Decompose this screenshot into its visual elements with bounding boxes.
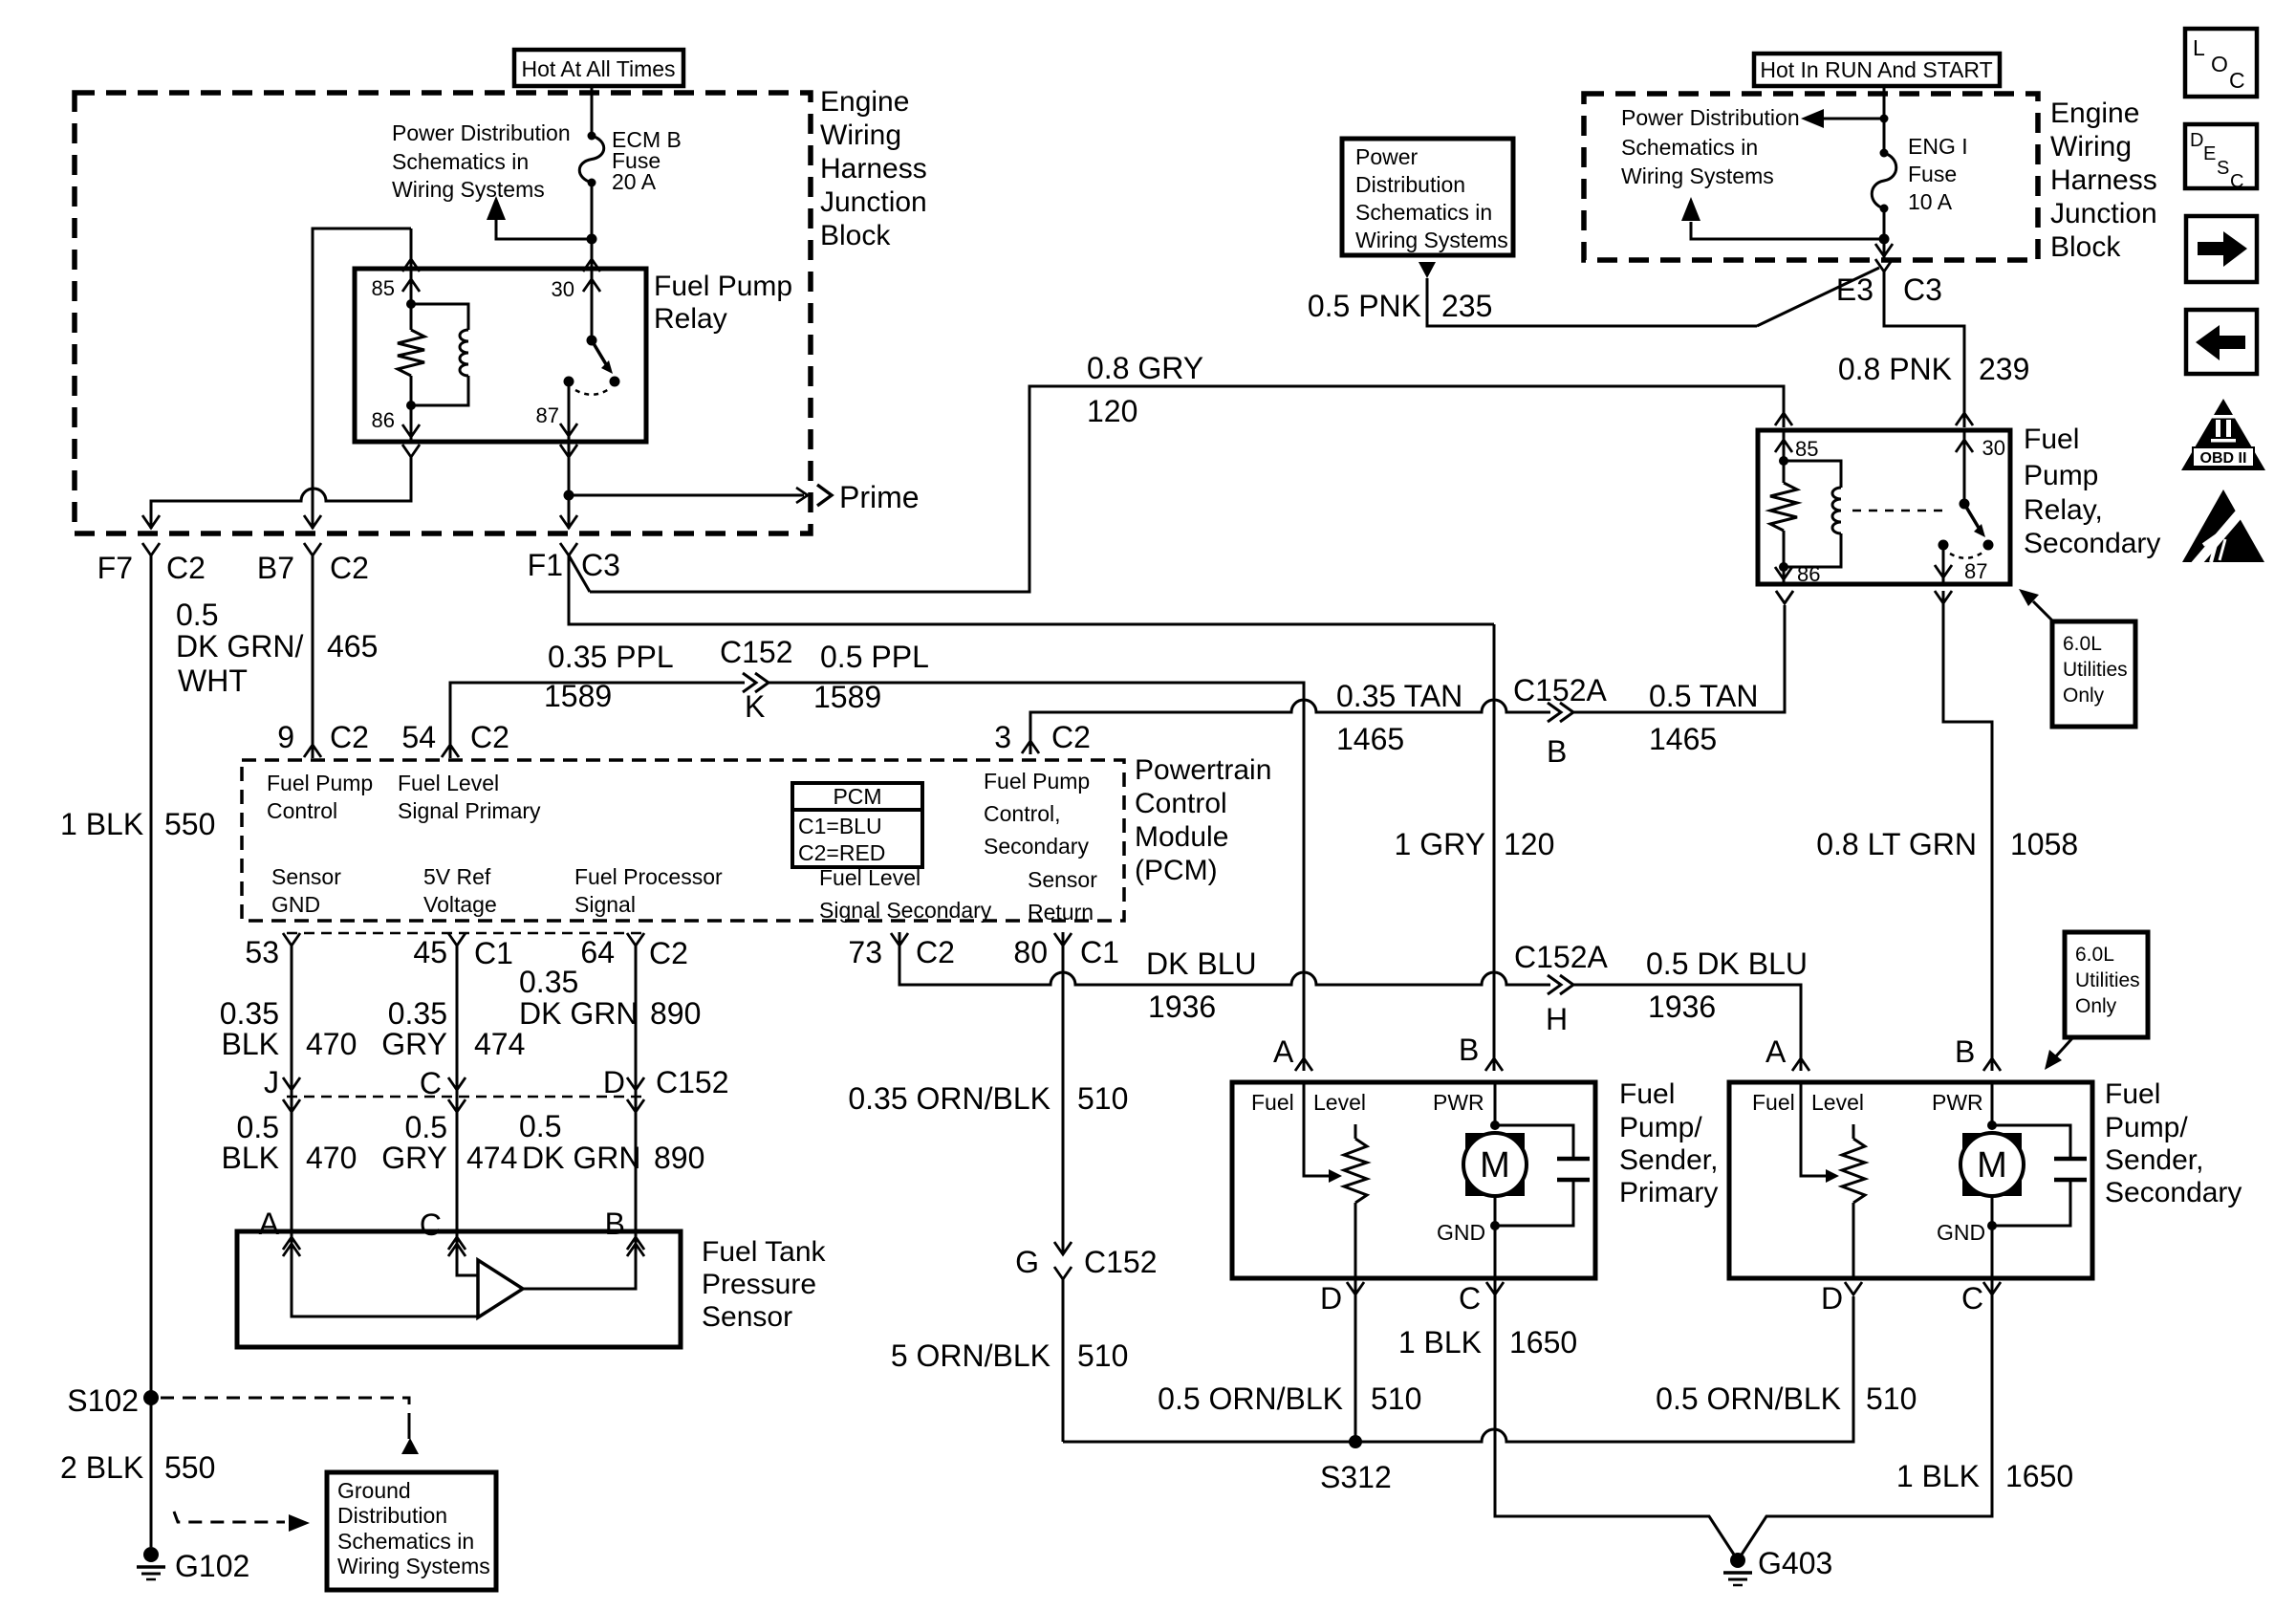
svg-text:510: 510 bbox=[1866, 1382, 1917, 1416]
switch K2 dashed throw arc bbox=[1950, 553, 1982, 558]
wire PCM pin 53 to sensor A bbox=[291, 945, 293, 1231]
wire 0.35 ORN/BLK pin 80 down bbox=[1062, 932, 1065, 1254]
svg-text:1589: 1589 bbox=[813, 680, 881, 714]
svg-text:Module: Module bbox=[1135, 821, 1228, 853]
svg-text:C2: C2 bbox=[916, 935, 955, 969]
wire K2 pin 85 stem bbox=[1783, 432, 1786, 461]
svg-text:Fuse: Fuse bbox=[1908, 162, 1957, 186]
svg-text:BLK: BLK bbox=[222, 1027, 279, 1061]
svg-text:Only: Only bbox=[2063, 685, 2105, 707]
svg-text:G102: G102 bbox=[175, 1549, 249, 1583]
svg-text:C152A: C152A bbox=[1514, 940, 1609, 974]
switch K1 arm bbox=[592, 340, 606, 364]
wire 0.35 TAN bbox=[1030, 700, 1550, 741]
svg-text:Hot In RUN And START: Hot In RUN And START bbox=[1760, 57, 1992, 82]
svg-text:Primary: Primary bbox=[1619, 1177, 1718, 1208]
svg-text:PWR: PWR bbox=[1433, 1090, 1484, 1115]
svg-text:3: 3 bbox=[994, 720, 1011, 754]
resistor K2 coil shunt bbox=[1770, 483, 1797, 531]
svg-text:6.0L: 6.0L bbox=[2063, 633, 2102, 655]
icon arrow right bbox=[2198, 231, 2247, 267]
arrow up to power distribution schematics bbox=[487, 196, 506, 220]
svg-text:Junction: Junction bbox=[2050, 198, 2157, 229]
junction block (right, engine wiring harness) dashed box bbox=[1584, 94, 2038, 260]
arrow from upper 6.0L box to K2 bbox=[2033, 601, 2054, 622]
svg-text:0.35: 0.35 bbox=[519, 965, 578, 999]
svg-text:1465: 1465 bbox=[1336, 722, 1404, 756]
svg-text:Wiring Systems: Wiring Systems bbox=[392, 177, 545, 202]
svg-text:Prime: Prime bbox=[839, 480, 920, 514]
svg-text:C3: C3 bbox=[1903, 272, 1942, 307]
svg-text:87: 87 bbox=[536, 403, 559, 427]
wire 0.8 GRY bbox=[590, 386, 1784, 592]
wire K1 switch common (pin 30) bbox=[591, 271, 594, 340]
svg-text:M: M bbox=[1480, 1145, 1510, 1186]
dashed reference to ground distribution (lower) bbox=[174, 1512, 285, 1522]
svg-text:Fuel: Fuel bbox=[1752, 1090, 1795, 1115]
svg-text:Fuel: Fuel bbox=[2024, 424, 2079, 455]
svg-text:Secondary: Secondary bbox=[2024, 528, 2160, 559]
svg-text:Signal: Signal bbox=[574, 892, 636, 917]
svg-text:D: D bbox=[1320, 1281, 1342, 1316]
wire PCM pin 45 to sensor C bbox=[456, 945, 459, 1231]
note box 6.0L Utilities Only (upper) bbox=[2052, 621, 2135, 727]
motor fuel pump secondary bbox=[1991, 1082, 1994, 1125]
fuel pump/sender secondary box bbox=[1729, 1082, 2092, 1278]
svg-text:Control: Control bbox=[1135, 788, 1227, 819]
svg-text:C152: C152 bbox=[656, 1065, 729, 1099]
wire: prime branch bbox=[569, 494, 804, 497]
connector PCM pin 54 bbox=[442, 745, 459, 757]
svg-text:Power Distribution: Power Distribution bbox=[392, 120, 571, 145]
svg-text:465: 465 bbox=[327, 629, 378, 664]
sensor internal signal output arm bbox=[523, 1231, 636, 1289]
svg-text:Schematics in: Schematics in bbox=[392, 149, 529, 174]
svg-text:1 BLK: 1 BLK bbox=[60, 807, 143, 841]
svg-text:A: A bbox=[259, 1207, 280, 1241]
svg-text:0.35: 0.35 bbox=[220, 996, 279, 1031]
svg-text:Sensor: Sensor bbox=[702, 1301, 792, 1333]
note box Power Distribution Schematics (middle) bbox=[1342, 139, 1513, 255]
svg-text:C152: C152 bbox=[1084, 1245, 1158, 1279]
svg-text:A: A bbox=[1273, 1034, 1294, 1069]
splice S102 bbox=[143, 1390, 159, 1405]
svg-text:80: 80 bbox=[1013, 935, 1048, 969]
svg-text:1465: 1465 bbox=[1649, 722, 1717, 756]
motor fuel pump primary bbox=[1494, 1082, 1497, 1125]
svg-text:GRY: GRY bbox=[381, 1141, 447, 1175]
svg-text:53: 53 bbox=[245, 935, 279, 969]
svg-text:PWR: PWR bbox=[1932, 1090, 1983, 1115]
svg-text:C2=RED: C2=RED bbox=[798, 840, 885, 865]
svg-text:Control: Control bbox=[267, 798, 337, 823]
wire: K1 87 down to connector F1 bbox=[568, 442, 571, 529]
svg-text:470: 470 bbox=[306, 1141, 357, 1175]
relay K2 Fuel Pump Relay Secondary box bbox=[1758, 430, 2010, 584]
svg-text:20 A: 20 A bbox=[612, 169, 657, 194]
fuel tank pressure sensor box bbox=[237, 1231, 681, 1347]
svg-text:K: K bbox=[745, 689, 765, 724]
svg-text:9: 9 bbox=[277, 720, 294, 754]
svg-text:E3: E3 bbox=[1836, 272, 1874, 307]
svg-text:C2: C2 bbox=[166, 551, 206, 585]
arrow up (right junction block) bbox=[1681, 197, 1700, 221]
wire: K1 85 to connector B7 bbox=[410, 228, 413, 271]
svg-text:ENG I: ENG I bbox=[1908, 134, 1968, 159]
svg-text:B: B bbox=[1459, 1033, 1479, 1067]
svg-text:D: D bbox=[603, 1065, 625, 1099]
svg-text:H: H bbox=[1546, 1002, 1568, 1036]
svg-text:0.5: 0.5 bbox=[237, 1110, 279, 1144]
wire K1 pin 87 stem bbox=[568, 381, 571, 442]
svg-text:Engine: Engine bbox=[2050, 98, 2139, 129]
wire K2 switch common (pin 30) bbox=[1963, 432, 1966, 504]
svg-text:GRY: GRY bbox=[381, 1027, 447, 1061]
svg-text:73: 73 bbox=[848, 935, 882, 969]
svg-text:Block: Block bbox=[2050, 231, 2121, 263]
svg-text:Sensor: Sensor bbox=[271, 864, 341, 889]
svg-text:Fuel Pump: Fuel Pump bbox=[984, 769, 1090, 794]
svg-text:GND: GND bbox=[271, 892, 320, 917]
wire: F7 to S102 bbox=[150, 555, 153, 1398]
svg-text:0.5: 0.5 bbox=[519, 1109, 561, 1143]
svg-text:45: 45 bbox=[413, 935, 447, 969]
svg-text:0.5 TAN: 0.5 TAN bbox=[1649, 679, 1758, 713]
svg-text:G: G bbox=[1015, 1245, 1039, 1279]
svg-text:Ground: Ground bbox=[337, 1478, 411, 1503]
svg-text:Wiring Systems: Wiring Systems bbox=[1621, 163, 1774, 188]
wire: ignition feed bbox=[1883, 86, 1886, 153]
svg-text:0.8 PNK: 0.8 PNK bbox=[1838, 352, 1952, 386]
wire PCM pin 64 to sensor B bbox=[635, 945, 638, 1231]
svg-text:Pump: Pump bbox=[2024, 460, 2098, 491]
dashed reference from S102 bbox=[161, 1398, 409, 1430]
svg-text:Level: Level bbox=[1811, 1090, 1864, 1115]
wire: branch to up arrow (right) bbox=[1691, 222, 1884, 239]
wire: S102 to G102 bbox=[150, 1398, 153, 1547]
wire: K1 86 to connector F7 bbox=[151, 457, 411, 529]
svg-text:Relay,: Relay, bbox=[2024, 494, 2103, 526]
svg-text:Level: Level bbox=[1313, 1090, 1366, 1115]
capacitor fuel pump primary bbox=[1495, 1125, 1573, 1159]
svg-text:Utilities: Utilities bbox=[2075, 969, 2140, 991]
svg-text:C: C bbox=[420, 1066, 442, 1100]
label box: Hot In RUN And START bbox=[1754, 54, 2000, 86]
note box 6.0L Utilities Only (lower) bbox=[2065, 932, 2148, 1037]
C152 inline connector dashed bottom bbox=[287, 1096, 644, 1099]
svg-text:Powertrain: Powertrain bbox=[1135, 754, 1271, 786]
svg-text:0.35 ORN/BLK: 0.35 ORN/BLK bbox=[848, 1081, 1051, 1116]
svg-text:54: 54 bbox=[401, 720, 436, 754]
svg-text:550: 550 bbox=[164, 1450, 215, 1485]
connector PCM pin 80 bbox=[1054, 933, 1072, 946]
svg-text:474: 474 bbox=[474, 1027, 525, 1061]
svg-text:1650: 1650 bbox=[2005, 1459, 2073, 1493]
svg-text:Wiring Systems: Wiring Systems bbox=[1355, 228, 1508, 252]
icon box LOC bbox=[2185, 29, 2257, 97]
svg-text:0.5 ORN/BLK: 0.5 ORN/BLK bbox=[1158, 1382, 1343, 1416]
svg-text:C2: C2 bbox=[330, 720, 369, 754]
svg-text:0.5: 0.5 bbox=[405, 1110, 447, 1144]
wire: battery feed into block bbox=[591, 86, 594, 136]
svg-text:Fuel Pump: Fuel Pump bbox=[267, 771, 373, 795]
svg-text:470: 470 bbox=[306, 1027, 357, 1061]
svg-text:Wiring: Wiring bbox=[2050, 131, 2132, 163]
svg-text:C: C bbox=[420, 1207, 442, 1242]
svg-text:WHT: WHT bbox=[178, 664, 248, 698]
wire 0.35 PPL bbox=[450, 683, 745, 745]
svg-text:C2: C2 bbox=[1051, 720, 1091, 754]
icon box arrow left bbox=[2186, 310, 2257, 374]
svg-text:O: O bbox=[2211, 52, 2228, 76]
svg-text:86: 86 bbox=[372, 408, 395, 432]
wire: branch to power distribution note bbox=[496, 220, 592, 239]
svg-text:Pump/: Pump/ bbox=[1619, 1112, 1702, 1143]
arrow down from middle note box bbox=[1419, 262, 1436, 278]
svg-text:Fuel Processor: Fuel Processor bbox=[574, 864, 723, 889]
arrowhead prime at harness edge bbox=[796, 488, 808, 503]
svg-text:Block: Block bbox=[820, 220, 891, 251]
switch K2 arm bbox=[1964, 504, 1979, 528]
svg-text:D: D bbox=[1821, 1281, 1843, 1316]
svg-text:30: 30 bbox=[552, 277, 574, 301]
note box Ground Distribution Schematics in Wiring Systems bbox=[327, 1472, 496, 1590]
svg-text:Schematics in: Schematics in bbox=[337, 1529, 474, 1554]
op-amp fuel tank pressure sensor bbox=[478, 1260, 523, 1317]
wire 1 BLK secondary C to G403 bbox=[1740, 1278, 1992, 1557]
svg-text:5 ORN/BLK: 5 ORN/BLK bbox=[891, 1338, 1051, 1373]
svg-text:F7: F7 bbox=[97, 551, 133, 585]
wire 0.5 PNK bbox=[1427, 278, 1757, 326]
svg-text:Return: Return bbox=[1028, 900, 1094, 925]
label box: Hot At All Times bbox=[514, 50, 683, 86]
svg-text:0.8 GRY: 0.8 GRY bbox=[1087, 351, 1203, 385]
wire 0.5 ORN/BLK primary D down bbox=[1354, 1278, 1357, 1442]
connector chevron above K1 pin 30 bbox=[583, 259, 600, 272]
svg-text:Utilities: Utilities bbox=[2063, 659, 2128, 681]
svg-text:A: A bbox=[1765, 1034, 1787, 1069]
svg-text:Sensor: Sensor bbox=[1028, 867, 1097, 892]
icon OBD II label band bbox=[2193, 447, 2254, 467]
connector G / C152 inline bbox=[1054, 1242, 1072, 1254]
svg-text:550: 550 bbox=[164, 807, 215, 841]
svg-text:0.5 PPL: 0.5 PPL bbox=[820, 640, 929, 674]
fuse ENG I bbox=[1880, 149, 1889, 158]
svg-text:0.8 LT GRN: 0.8 LT GRN bbox=[1816, 827, 1977, 861]
svg-text:Fuel: Fuel bbox=[1619, 1078, 1675, 1110]
icon box DESC bbox=[2185, 124, 2257, 188]
potentiometer fuel level sender secondary bbox=[1852, 1124, 1855, 1139]
svg-text:Power: Power bbox=[1355, 144, 1419, 169]
svg-text:B7: B7 bbox=[257, 551, 294, 585]
pin chevron C secondary bbox=[1983, 1282, 2001, 1295]
svg-text:Secondary: Secondary bbox=[2105, 1177, 2242, 1208]
svg-text:1936: 1936 bbox=[1648, 990, 1716, 1024]
sensor internal 5v arm bbox=[457, 1231, 478, 1275]
svg-text:B: B bbox=[605, 1207, 625, 1241]
connector F7 / C2 bbox=[142, 543, 160, 555]
sensor internal ground arm bbox=[292, 1231, 478, 1316]
svg-text:C2: C2 bbox=[330, 551, 369, 585]
svg-text:0.5: 0.5 bbox=[176, 598, 218, 632]
splice S312 bbox=[1349, 1435, 1362, 1448]
wire K1 pin 85 stem bbox=[410, 271, 413, 304]
svg-text:Pressure: Pressure bbox=[702, 1269, 816, 1300]
svg-text:890: 890 bbox=[654, 1141, 704, 1175]
svg-text:C1=BLU: C1=BLU bbox=[798, 814, 882, 838]
svg-text:G403: G403 bbox=[1758, 1546, 1832, 1580]
svg-text:474: 474 bbox=[466, 1141, 517, 1175]
svg-text:S312: S312 bbox=[1320, 1460, 1392, 1494]
junction block (engine wiring harness) dashed box bbox=[75, 93, 811, 533]
icon ESD hand cutout bbox=[2193, 501, 2250, 568]
connector C152 pin K chevrons bbox=[743, 673, 756, 692]
chevron prime connector bbox=[817, 485, 832, 506]
splice bus S312 wire bbox=[1063, 1296, 1853, 1442]
svg-text:Voltage: Voltage bbox=[423, 892, 497, 917]
wiper arm fuel level sender secondary bbox=[1801, 1082, 1828, 1176]
svg-text:0.5 ORN/BLK: 0.5 ORN/BLK bbox=[1656, 1382, 1841, 1416]
svg-text:E: E bbox=[2203, 143, 2216, 164]
svg-text:Control,: Control, bbox=[984, 801, 1061, 826]
svg-text:M: M bbox=[1977, 1145, 2007, 1186]
svg-text:Sender,: Sender, bbox=[2105, 1144, 2203, 1176]
wire PCM C3 lower leg bbox=[569, 555, 1494, 624]
svg-text:64: 64 bbox=[580, 935, 615, 969]
svg-text:Hot At All Times: Hot At All Times bbox=[521, 56, 675, 81]
wire K1 pin 86 stem bbox=[410, 405, 413, 442]
connector C152A pin B chevrons bbox=[1548, 703, 1561, 722]
wire 1 BLK primary C to G403 bbox=[1495, 1278, 1736, 1557]
svg-text:Relay: Relay bbox=[654, 303, 727, 335]
connector PCM pin 73 bbox=[891, 933, 908, 946]
svg-text:S: S bbox=[2217, 158, 2229, 179]
svg-text:Engine: Engine bbox=[820, 86, 909, 118]
svg-text:Signal Secondary: Signal Secondary bbox=[819, 898, 992, 923]
svg-text:C: C bbox=[2230, 171, 2243, 192]
svg-text:Fuel Pump: Fuel Pump bbox=[654, 271, 792, 302]
svg-text:Harness: Harness bbox=[2050, 164, 2157, 196]
svg-text:F1: F1 bbox=[528, 548, 563, 582]
svg-text:Fuel: Fuel bbox=[2105, 1078, 2160, 1110]
connector B7 / C2 bbox=[304, 543, 321, 555]
switch K1 dashed throw arc bbox=[575, 389, 609, 395]
svg-text:1650: 1650 bbox=[1509, 1325, 1577, 1360]
wire 1 GRY down to pump B bbox=[1493, 624, 1496, 1071]
svg-text:510: 510 bbox=[1077, 1338, 1128, 1373]
svg-text:DK GRN/: DK GRN/ bbox=[176, 629, 303, 664]
wire E3 jog to K2 pin 30 bbox=[1884, 272, 1964, 427]
svg-text:0.35 TAN: 0.35 TAN bbox=[1336, 679, 1462, 713]
svg-text:510: 510 bbox=[1077, 1081, 1128, 1116]
coil K1 relay winding bbox=[411, 304, 468, 330]
wiper arm fuel level sender primary bbox=[1304, 1082, 1331, 1176]
wire: fuse ENG I down bbox=[1883, 208, 1886, 258]
wire 0.5 DK BLU to pump secondary A bbox=[1573, 985, 1801, 1071]
svg-text:0.35: 0.35 bbox=[388, 996, 447, 1031]
svg-text:C3: C3 bbox=[581, 548, 620, 582]
svg-text:Fuel Tank: Fuel Tank bbox=[702, 1236, 827, 1268]
svg-text:DK GRN: DK GRN bbox=[519, 996, 638, 1031]
svg-text:1589: 1589 bbox=[544, 679, 612, 713]
svg-text:Harness: Harness bbox=[820, 153, 927, 185]
svg-text:85: 85 bbox=[1795, 437, 1818, 461]
wire 5 ORN/BLK to splice bus bbox=[1062, 1279, 1065, 1442]
svg-text:Distribution: Distribution bbox=[1355, 172, 1465, 197]
connector PCM pin 3 bbox=[1022, 741, 1039, 753]
icon OBD II roman numeral bbox=[2211, 415, 2236, 419]
icon ESD triangle bbox=[2182, 490, 2264, 562]
svg-text:Power Distribution: Power Distribution bbox=[1621, 105, 1800, 130]
connector F1 / C3 bbox=[560, 543, 577, 555]
arrow into ground distribution box bbox=[408, 1425, 411, 1439]
C152 inline connector dashed top bbox=[287, 932, 644, 935]
pin chevron C primary bbox=[1486, 1282, 1504, 1295]
svg-text:C: C bbox=[1459, 1281, 1481, 1316]
ground G102 bbox=[143, 1547, 159, 1562]
svg-text:1058: 1058 bbox=[2010, 827, 2078, 861]
PCM connector legend box bbox=[792, 783, 922, 867]
svg-text:30: 30 bbox=[1982, 436, 2005, 460]
svg-text:L: L bbox=[2193, 35, 2205, 60]
svg-text:Wiring: Wiring bbox=[820, 120, 901, 151]
diagonal leg of connector E3/C3 bbox=[1757, 268, 1879, 326]
svg-text:Schematics in: Schematics in bbox=[1355, 200, 1492, 225]
resistor K1 coil shunt bbox=[398, 330, 424, 376]
svg-text:C: C bbox=[1961, 1281, 1983, 1316]
svg-text:890: 890 bbox=[650, 996, 701, 1031]
svg-text:Only: Only bbox=[2075, 995, 2117, 1017]
pin chevron D primary bbox=[1347, 1282, 1364, 1295]
wire 0.5 PPL to pump A bbox=[768, 683, 1304, 1071]
svg-text:Fuel: Fuel bbox=[1251, 1090, 1294, 1115]
connector chevron above K1 pin 85 bbox=[402, 259, 420, 272]
svg-text:DK GRN: DK GRN bbox=[522, 1141, 640, 1175]
svg-text:87: 87 bbox=[1964, 559, 1987, 583]
switch K2 contact dots bbox=[1983, 540, 1994, 551]
svg-text:0.5 DK BLU: 0.5 DK BLU bbox=[1646, 946, 1808, 981]
svg-text:C: C bbox=[2229, 68, 2245, 93]
svg-text:GND: GND bbox=[1937, 1220, 1985, 1245]
wire: B7 to PCM pin 9 bbox=[312, 555, 314, 758]
svg-text:1 GRY: 1 GRY bbox=[1395, 827, 1485, 861]
svg-text:C152: C152 bbox=[720, 635, 793, 669]
svg-text:Schematics in: Schematics in bbox=[1621, 135, 1758, 160]
svg-text:6.0L: 6.0L bbox=[2075, 944, 2114, 966]
icon arrow left bbox=[2196, 325, 2245, 360]
svg-text:Junction: Junction bbox=[820, 186, 927, 218]
svg-text:GND: GND bbox=[1437, 1220, 1485, 1245]
arrow from lower 6.0L box to secondary pump bbox=[2053, 1038, 2072, 1059]
pin chevron D secondary bbox=[1845, 1282, 1862, 1295]
wire 0.5 TAN to K2 pin 86 bbox=[1573, 605, 1785, 712]
svg-text:120: 120 bbox=[1504, 827, 1554, 861]
svg-text:0.35 PPL: 0.35 PPL bbox=[548, 640, 674, 674]
connector E3 / C3 bbox=[1875, 259, 1893, 272]
svg-text:Wiring Systems: Wiring Systems bbox=[337, 1554, 490, 1578]
capacitor fuel pump secondary bbox=[1992, 1125, 2070, 1159]
wire K2 pin 87 stem bbox=[1942, 545, 1945, 582]
svg-text:B: B bbox=[1955, 1034, 1975, 1069]
icon OBD II triangle bbox=[2181, 399, 2265, 470]
svg-text:239: 239 bbox=[1979, 352, 2029, 386]
powertrain control module dashed box bbox=[242, 760, 1124, 921]
svg-text:C2: C2 bbox=[470, 720, 509, 754]
switch K1 contact dots bbox=[610, 377, 620, 387]
svg-text:1936: 1936 bbox=[1148, 990, 1216, 1024]
svg-text:10 A: 10 A bbox=[1908, 189, 1953, 214]
svg-text:1 BLK: 1 BLK bbox=[1398, 1325, 1482, 1360]
